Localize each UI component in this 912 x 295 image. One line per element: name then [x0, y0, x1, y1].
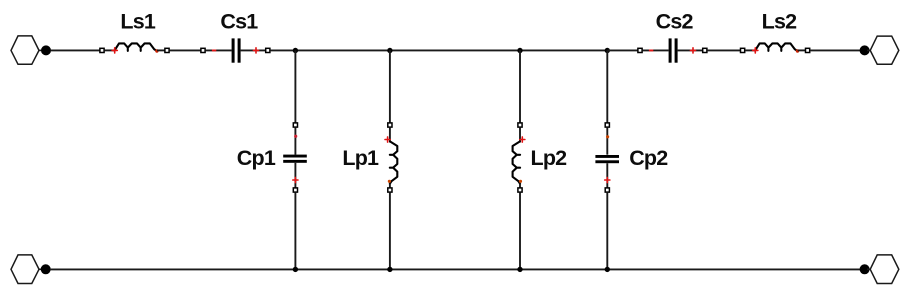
wire node B down to Lp1 [389, 50, 391, 122]
port P1 (top left) [11, 36, 51, 64]
node C junction [517, 48, 522, 53]
wire Cs2 to Ls2 [707, 49, 740, 51]
inductor Ls2 [741, 43, 810, 53]
svg-text:Cs2: Cs2 [656, 10, 694, 34]
wire P1 to Ls1 [51, 49, 100, 51]
wire node D down to Cp2 [606, 50, 608, 122]
wire Lp1 down to node F [389, 192, 391, 269]
capacitor Cp1 [283, 123, 307, 192]
wire Ls1 to Cs1 [169, 49, 200, 51]
bottom bus wire P3 to P4 [50, 268, 860, 270]
node B junction [387, 48, 392, 53]
port P3 (bottom left) [11, 255, 51, 284]
inductor Lp1 [385, 123, 397, 192]
capacitor Cs1 [201, 38, 270, 62]
port P4 (bottom right) [860, 255, 899, 284]
port P2 (top right) [860, 36, 899, 64]
node A junction [293, 48, 298, 53]
wire Ls2 to P2 [810, 49, 860, 51]
wire node C down to Lp2 [519, 50, 521, 122]
node F junction [387, 267, 392, 272]
capacitor Cs2 [638, 38, 707, 62]
node E junction [293, 267, 298, 272]
wire Lp2 down to node G [519, 192, 521, 269]
svg-text:Cs1: Cs1 [220, 10, 258, 34]
top bus wire node A to node D [296, 49, 608, 51]
svg-text:Ls2: Ls2 [762, 10, 797, 34]
svg-text:Cp1: Cp1 [237, 146, 276, 170]
inductor Lp2 [513, 123, 525, 192]
node H junction [605, 267, 610, 272]
node D junction [605, 48, 610, 53]
wire Cp2 down to node H [606, 192, 608, 269]
svg-text:Lp1: Lp1 [342, 146, 379, 170]
capacitor Cp2 [595, 123, 619, 192]
svg-text:Ls1: Ls1 [120, 10, 155, 34]
node G junction [517, 267, 522, 272]
wire Cp1 down to node E [294, 192, 296, 269]
wire node A down to Cp1 [294, 50, 296, 122]
wire node D to Cs2 [607, 49, 637, 51]
svg-text:Cp2: Cp2 [629, 146, 668, 170]
svg-text:Lp2: Lp2 [530, 146, 567, 170]
inductor Ls1 [100, 43, 169, 53]
wire Cs1 to node A [270, 49, 295, 51]
